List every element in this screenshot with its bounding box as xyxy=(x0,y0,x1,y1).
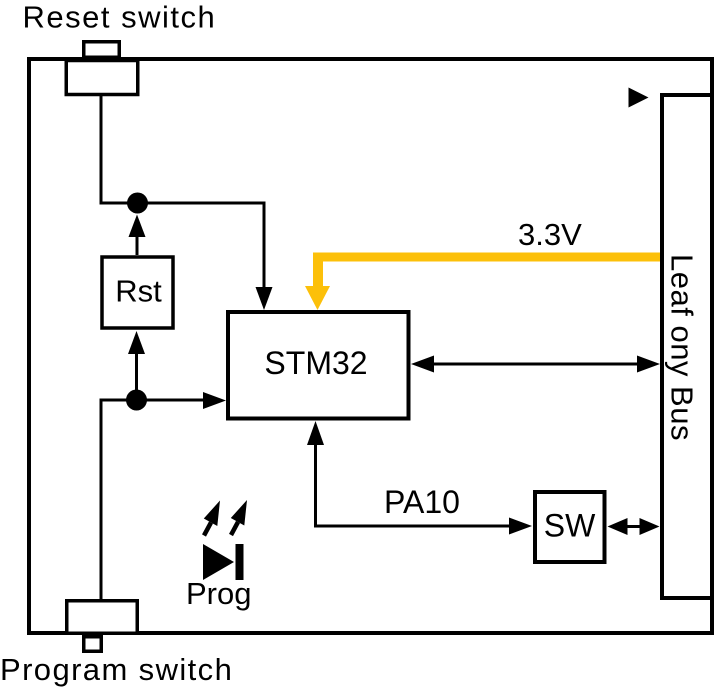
wire: node B to STM32 left with arrowhead xyxy=(101,399,204,402)
svg-text:Rst: Rst xyxy=(115,274,162,309)
wire: STM32 to bus (double arrow) xyxy=(411,356,660,373)
svg-text:PA10: PA10 xyxy=(384,484,460,520)
svg-text:Leaf ony Bus: Leaf ony Bus xyxy=(665,254,700,441)
wire: Rst top to node A with arrowhead up xyxy=(136,236,139,255)
LED Prog xyxy=(203,544,244,580)
arrowhead into STM32 top (reset line) xyxy=(256,287,273,310)
svg-text:3.3V: 3.3V xyxy=(518,217,582,252)
3.3V power wire (orange) xyxy=(305,253,660,311)
reset switch symbol xyxy=(66,42,138,95)
node B (junction dot lower) xyxy=(126,390,147,411)
svg-text:Prog: Prog xyxy=(186,576,251,611)
wire: SW to bus (double arrow) xyxy=(608,518,660,535)
wire: program switch riser xyxy=(100,399,103,601)
svg-text:STM32: STM32 xyxy=(264,345,367,381)
resistor Rst xyxy=(102,257,173,328)
board outline xyxy=(29,59,712,633)
node A (junction dot upper) xyxy=(127,193,148,214)
wire: STM32 bottom to SW (PA10) xyxy=(307,421,532,535)
bus direction triangle xyxy=(629,88,649,108)
bus Leaf ony Bus xyxy=(662,95,712,598)
wire: reset switch to node A and down to STM32 top xyxy=(101,94,264,292)
switch SW xyxy=(535,492,605,562)
program switch symbol xyxy=(67,601,138,652)
svg-text:SW: SW xyxy=(544,508,596,544)
MCU STM32 xyxy=(228,312,409,419)
wire: node B to Rst bottom with arrowhead up xyxy=(135,353,138,400)
svg-text:Program switch: Program switch xyxy=(0,652,233,687)
svg-text:Reset switch: Reset switch xyxy=(23,0,217,35)
LED light arrows xyxy=(204,500,247,536)
